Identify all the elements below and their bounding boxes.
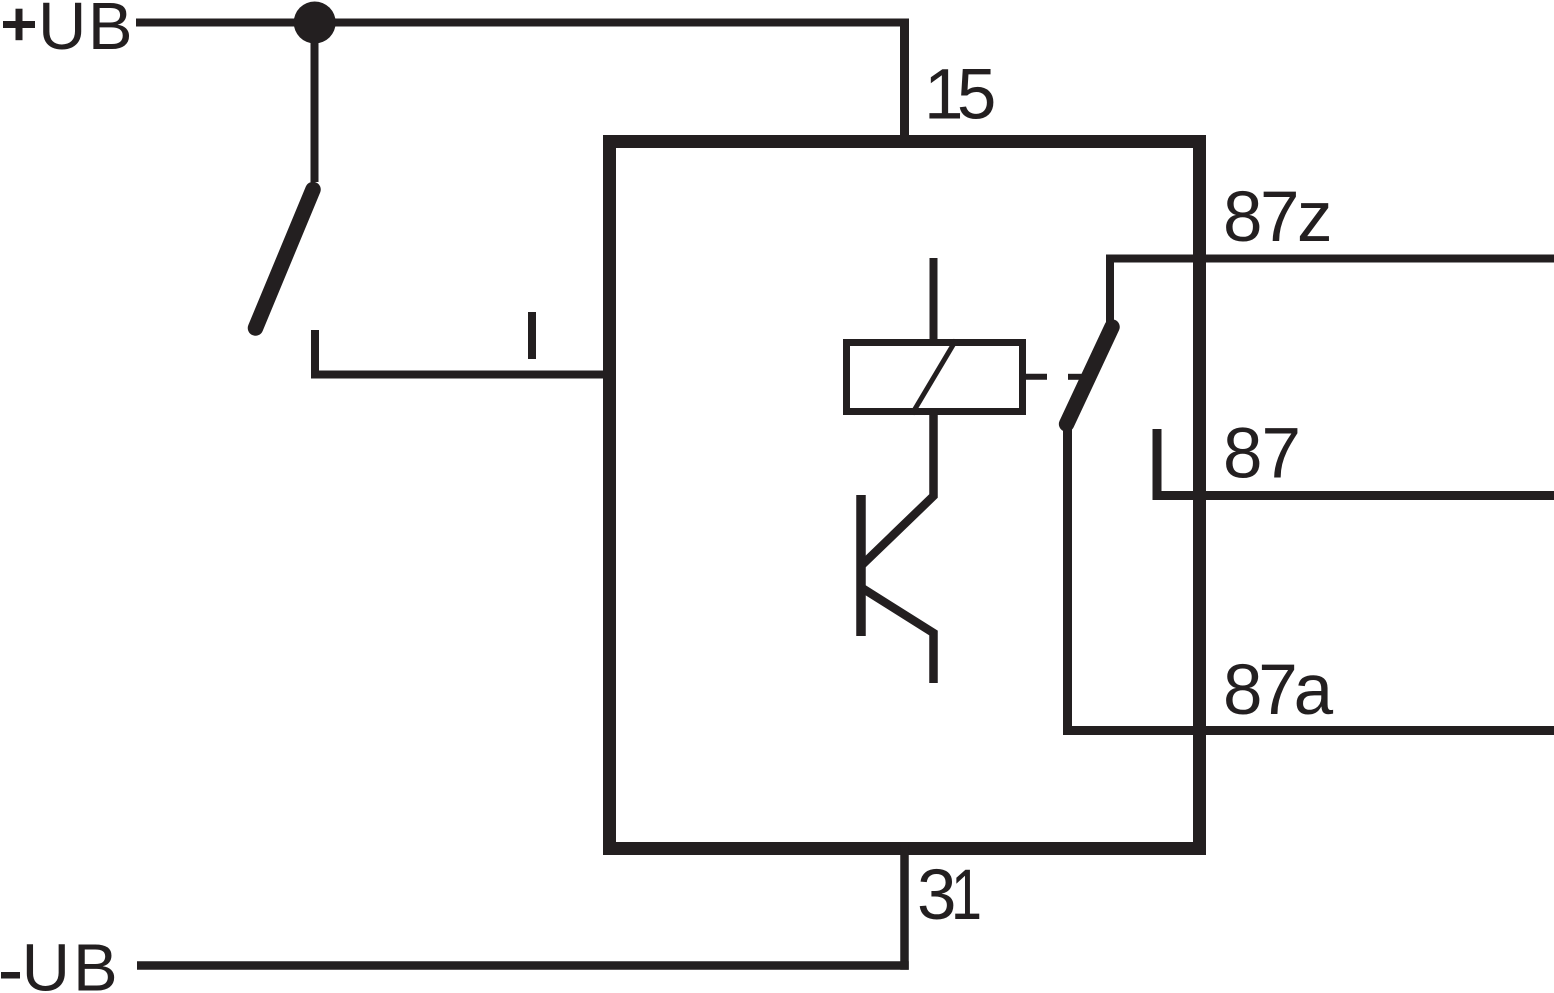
linkage dash 2 xyxy=(1068,374,1082,380)
svg-text:87: 87 xyxy=(1223,415,1300,494)
contact lower lead xyxy=(1063,429,1072,731)
svg-text:15: 15 xyxy=(924,56,994,135)
linkage dash 1 xyxy=(1026,374,1047,380)
contact 87 fixed lead xyxy=(1153,429,1162,496)
wire 87a xyxy=(1063,726,1554,735)
net +UB label xyxy=(3,0,134,64)
pin 31 label xyxy=(917,856,982,935)
wire 87 xyxy=(1153,491,1554,500)
pin 15 wire xyxy=(900,19,909,141)
pin 31 wire xyxy=(900,845,909,970)
wire -UB xyxy=(137,961,909,970)
svg-text:1: 1 xyxy=(951,856,982,935)
relay module box xyxy=(610,142,1200,849)
relay coil K1 xyxy=(847,343,1023,412)
wire switch drop xyxy=(311,23,319,183)
wire 87z xyxy=(1106,255,1554,263)
switch S1 blade xyxy=(256,190,314,329)
net -UB label xyxy=(1,931,121,993)
svg-text:UB: UB xyxy=(22,931,121,993)
svg-text:87z: 87z xyxy=(1223,178,1330,257)
switch actuation tick xyxy=(528,312,536,359)
transistor K collector lead xyxy=(862,411,934,565)
svg-text:UB: UB xyxy=(38,0,134,64)
relay coil diagonal xyxy=(912,340,956,414)
junction dot xyxy=(294,2,336,44)
wire +UB horizontal xyxy=(136,19,909,27)
transistor K emitter lead xyxy=(862,588,934,683)
relay coil top lead xyxy=(930,258,938,343)
contact blade xyxy=(1067,327,1112,424)
transistor K base bar xyxy=(856,495,866,636)
switch S1 fixed contact wire xyxy=(315,330,610,375)
contact upper lead xyxy=(1106,259,1114,323)
svg-text:87a: 87a xyxy=(1223,651,1334,730)
